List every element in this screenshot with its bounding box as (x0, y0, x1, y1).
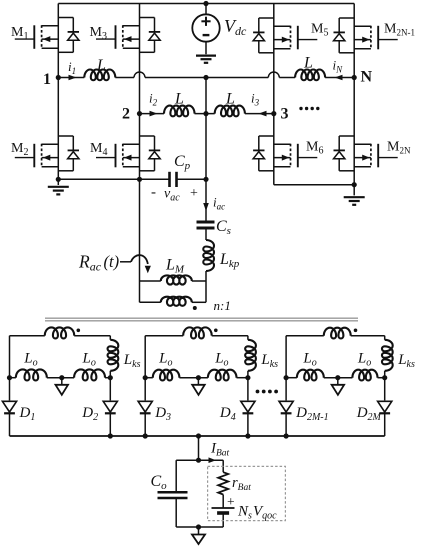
node bottom rail junction x=198.5 (196, 433, 201, 438)
node common row1 junction (203, 75, 208, 80)
node common row2 junction (203, 111, 208, 116)
wire transformer left vertical (139, 179, 141, 302)
battery NsVqoc (212, 507, 235, 509)
wire leg N (M2N-1/M2N) (353, 4, 355, 185)
ground left bus (57, 179, 59, 185)
inductor Lkp (203, 240, 214, 271)
wire L to common row2 (195, 113, 215, 115)
node cell mid left (7, 375, 12, 380)
capacitor Co (176, 459, 198, 461)
node cell center tap (196, 375, 201, 380)
wire cell left vertical (9, 336, 11, 401)
wire leg 1 (M1/M2) (57, 4, 59, 180)
ground center tap arrow (197, 378, 199, 385)
wire row1 L to node N (325, 77, 354, 79)
wire Lkp to primary (205, 271, 207, 302)
wire right source bus (274, 184, 354, 186)
inductor Lo right (74, 369, 105, 380)
ground center tap arrow (61, 378, 63, 385)
wire leg 3 (M5/M6) (273, 4, 275, 185)
transformer primary winding (140, 301, 161, 303)
node cell mid right (108, 375, 113, 380)
svg-text:(t): (t) (104, 252, 120, 271)
wire leg 2 (M3/M4) (139, 4, 141, 180)
transistor M1 (58, 17, 73, 19)
svg-text:L: L (96, 57, 106, 74)
diode D1 (9, 400, 11, 436)
node Cp common junction (203, 177, 208, 182)
wire row1 L to hop over leg2 (115, 77, 134, 79)
wire common node vertical (205, 78, 207, 223)
wire bottom output rail (10, 435, 385, 437)
diode D2 (109, 400, 111, 436)
node secondary polarity dot (77, 329, 81, 333)
svg-text:+: + (227, 494, 235, 509)
inductor Lo left (297, 370, 324, 381)
wire battery to bottom (222, 513, 224, 527)
inductor L (phase N) (295, 69, 325, 80)
node output junction (196, 458, 201, 463)
ground center tap arrow (337, 378, 339, 385)
wire Rac arrow (120, 261, 131, 263)
wire hop over leg 2 (134, 72, 145, 77)
wire hop over leg 3 (268, 72, 279, 77)
current arrow IBat (199, 459, 224, 461)
wire row1 to common node (145, 77, 268, 79)
capacitor Cs (197, 221, 215, 224)
node leg1 bus junction (56, 177, 61, 182)
wire L to node 3 (245, 113, 274, 115)
wire cell middle rail (286, 377, 297, 379)
transformer secondary winding cell (324, 328, 351, 339)
node secondary polarity dot (214, 329, 218, 333)
ground below Vdc (196, 54, 216, 56)
diode D2M (384, 400, 386, 436)
wire Cs to Lkp (205, 228, 207, 240)
inductor L (phase 1) (84, 69, 115, 80)
wire cell middle rail (145, 377, 153, 379)
svg-text:N: N (361, 69, 373, 86)
wire secondary cell top rail (10, 335, 45, 337)
svg-text:3: 3 (281, 106, 289, 123)
svg-text:2: 2 (122, 106, 130, 123)
transistor M2N-1 (339, 17, 354, 19)
svg-text:-: - (151, 185, 156, 201)
wire node2 to L (140, 113, 165, 115)
diode D2M-1 (285, 400, 287, 436)
node 1 (56, 75, 61, 80)
node cell center tap (59, 375, 64, 380)
node bottom rail junction x=110.3 (108, 433, 113, 438)
inductor Lks (247, 336, 249, 340)
diode D3 (144, 400, 146, 436)
wire top DC rail (58, 3, 354, 5)
ground right bus (353, 185, 355, 196)
inductor Lo right (208, 370, 237, 381)
node cell mid right (382, 375, 387, 380)
svg-text:+: + (190, 186, 198, 201)
wire cell middle rail (10, 377, 16, 379)
inductor Lo left (16, 369, 47, 380)
wire output drop (198, 436, 200, 460)
node cell mid right (245, 375, 250, 380)
inductor Lks (384, 336, 386, 340)
inductor L (phase 2) (164, 106, 195, 117)
wire cell left vertical (144, 336, 146, 401)
node cell mid left (284, 375, 289, 380)
transformer secondary winding cell (183, 327, 212, 338)
source Vdc (205, 4, 207, 15)
transformer core lines (45, 317, 358, 319)
wire row1 hop to L N (279, 77, 295, 79)
wire output bottom horizontal (176, 526, 223, 528)
wire row1 node1 to L (58, 77, 84, 79)
inductor Lks (109, 336, 111, 340)
inductor L (phase 3) (215, 106, 245, 117)
ground output arrow (198, 527, 200, 535)
node output bottom (196, 524, 201, 529)
node bottom rail junction x=247.9 (245, 433, 250, 438)
node legN bus junction (352, 182, 357, 187)
node bottom rail junction x=286.1 (284, 433, 289, 438)
wire rBat to battery (222, 495, 224, 509)
wire secondary cell top rail (145, 335, 183, 337)
node secondary polarity dot (354, 329, 358, 333)
inductor Lo right (352, 370, 377, 381)
svg-text:n:1: n:1 (214, 298, 231, 313)
transistor M2 (58, 135, 73, 137)
transistor M2N (339, 135, 354, 137)
wire left source bus (58, 178, 169, 180)
inductor LM row (140, 280, 161, 282)
transistor M4 (140, 135, 155, 137)
current arrow i3 (259, 111, 267, 117)
diode D4 (247, 400, 249, 436)
inductor Lo left (153, 370, 180, 381)
current arrow iN (335, 75, 343, 81)
svg-text:L: L (225, 91, 235, 108)
transistor M5 (259, 17, 274, 19)
node primary polarity dot (193, 306, 197, 310)
battery dashed box (208, 466, 286, 520)
node cell center tap (335, 375, 340, 380)
wire cell left vertical (285, 336, 287, 401)
current arrow iac (203, 203, 209, 211)
capacitor Cp (168, 172, 171, 187)
svg-text:1: 1 (43, 71, 51, 88)
svg-text:L: L (303, 55, 313, 72)
node bottom rail junction x=145.2 (143, 433, 148, 438)
transformer secondary winding cell (45, 327, 74, 338)
current arrow i2 (150, 111, 158, 117)
ellipsis phases (299, 107, 302, 110)
node leg2 bus junction (137, 177, 142, 182)
node N (352, 75, 357, 80)
wire to rBat (222, 460, 224, 472)
svg-text:L: L (174, 91, 184, 108)
node cell mid left (143, 375, 148, 380)
node 2 (137, 111, 142, 116)
node Vdc positive junction (203, 1, 208, 6)
ellipsis cells (256, 390, 260, 394)
transistor M3 (140, 17, 155, 19)
resistor rBat (218, 472, 228, 494)
transistor M6 (259, 135, 274, 137)
current arrow i1 (69, 75, 77, 81)
wire secondary cell top rail (286, 335, 324, 337)
node 3 (271, 111, 276, 116)
